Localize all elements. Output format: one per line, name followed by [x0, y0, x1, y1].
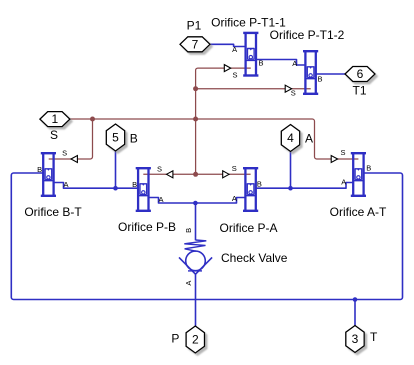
junction node signal at B-T branch: [90, 117, 95, 122]
svg-text:B: B: [258, 59, 263, 68]
wire orifice P-T1-2 B to port 6: [316, 73, 345, 75]
signal arrow into B-T S: [71, 156, 77, 163]
svg-text:T1: T1: [352, 84, 366, 98]
svg-text:S: S: [232, 164, 237, 173]
signal wire P-B S to P-A S tee: [143, 173, 250, 175]
junction node port3-T bus: [353, 297, 358, 302]
junction node signal trunk bottom tee: [193, 172, 198, 177]
junction node signal trunk x port1 line: [193, 117, 198, 122]
svg-text:A: A: [341, 177, 346, 186]
svg-text:S: S: [157, 165, 162, 174]
svg-text:Check Valve: Check Valve: [221, 251, 288, 265]
orifice A-T: [351, 152, 366, 196]
wire port 4 stem: [290, 151, 292, 188]
svg-text:A: A: [232, 45, 237, 54]
svg-text:A: A: [158, 195, 163, 204]
port 3 (T): [346, 326, 364, 353]
signal wire port 1 S across to A-T S input: [70, 119, 359, 159]
svg-text:Orifice A-T: Orifice A-T: [330, 205, 387, 219]
svg-text:5: 5: [112, 131, 119, 145]
signal wire trunk to orifice P-T1-1 S: [196, 68, 251, 174]
svg-text:3: 3: [352, 332, 359, 346]
junction node port4-A line: [288, 186, 293, 191]
signal arrow into P-B S: [167, 171, 173, 178]
svg-text:S: S: [340, 148, 345, 157]
wire port7 to orifice P-T1-1 port A: [210, 44, 246, 46]
svg-text:S: S: [232, 71, 237, 80]
svg-text:A: A: [184, 281, 193, 286]
orifice P-A: [243, 167, 258, 211]
orifice P-T1-2: [303, 50, 318, 94]
wire node P1int down to check valve B: [195, 203, 197, 240]
svg-text:Orifice P-A: Orifice P-A: [219, 221, 277, 235]
signal arrow into P-A S: [223, 171, 229, 178]
wire orifice P-B A to node P1int: [149, 198, 196, 204]
wire port 5 stem: [115, 151, 117, 188]
signal arrow into P-T1-1 S: [224, 65, 230, 72]
orifice B-T: [41, 152, 56, 196]
port 6 (T1): [345, 67, 375, 82]
svg-text:6: 6: [357, 67, 364, 81]
junction node signal trunk P-T1-2 branch: [193, 86, 198, 91]
svg-text:B: B: [184, 228, 193, 233]
check valve icon: [179, 240, 212, 274]
svg-text:4: 4: [287, 131, 294, 145]
svg-text:P1: P1: [187, 19, 202, 33]
svg-text:P: P: [171, 331, 179, 345]
svg-text:Orifice B-T: Orifice B-T: [24, 205, 82, 219]
svg-text:B: B: [257, 180, 262, 189]
svg-text:S: S: [62, 149, 67, 158]
svg-text:7: 7: [192, 37, 199, 51]
junction node P1int: [193, 201, 198, 206]
signal wire branch to orifice B-T S: [49, 119, 93, 159]
svg-text:B: B: [366, 164, 371, 173]
svg-text:2: 2: [192, 333, 199, 347]
wire orifice P-A A to node P1int: [196, 198, 246, 204]
port 5 (B): [106, 124, 124, 151]
svg-text:A: A: [232, 194, 237, 203]
svg-text:B: B: [37, 165, 42, 174]
svg-text:Orifice P-B: Orifice P-B: [118, 220, 176, 234]
svg-text:B: B: [132, 180, 137, 189]
wire orifice P-T1-1 B to orifice P-T1-2 A: [256, 60, 306, 66]
wire T rail: orifice B-T B down left rail along bottom bus up right rail to orifice A-T B: [11, 173, 402, 300]
svg-text:S: S: [291, 88, 296, 97]
svg-text:A: A: [305, 132, 313, 146]
svg-text:S: S: [50, 128, 58, 142]
port 4 (A): [281, 125, 299, 152]
svg-text:A: A: [63, 180, 68, 189]
svg-text:1: 1: [52, 112, 59, 126]
signal arrow into P-T1-2 S: [285, 85, 291, 92]
wire orifice P-A B to orifice A-T A via node at port 4: [256, 183, 353, 189]
orifice P-B: [136, 167, 151, 211]
svg-text:B: B: [317, 74, 322, 83]
svg-text:A: A: [292, 59, 297, 68]
wire check valve A down to port 2 crossing bus: [195, 274, 197, 327]
junction node port5-B line: [113, 186, 118, 191]
port 2 (P): [186, 326, 204, 353]
port 7 (P1): [180, 37, 210, 52]
wire port 3 stem: [354, 300, 356, 327]
orifice P-T1-1: [243, 32, 258, 76]
signal arrow into A-T S: [331, 156, 337, 163]
svg-text:T: T: [370, 330, 378, 344]
svg-text:Orifice P-T1-2: Orifice P-T1-2: [270, 28, 345, 42]
signal wire branch to orifice P-T1-2 S: [196, 88, 311, 90]
wire orifice B-T A to orifice P-B B: [54, 183, 139, 189]
svg-text:B: B: [130, 132, 138, 146]
port 1 (S): [40, 112, 70, 127]
